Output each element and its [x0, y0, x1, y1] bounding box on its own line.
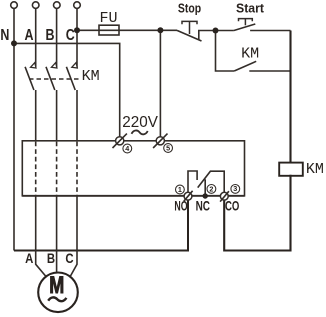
svg-text:FU: FU: [99, 10, 117, 27]
svg-text:C: C: [66, 27, 75, 44]
svg-text:B: B: [46, 27, 55, 44]
svg-text:1: 1: [178, 185, 182, 194]
svg-text:C: C: [65, 251, 73, 266]
svg-text:KM: KM: [241, 45, 259, 62]
svg-text:N: N: [0, 27, 9, 44]
svg-text:Stop: Stop: [178, 0, 201, 15]
svg-text:A: A: [25, 251, 33, 266]
svg-text:Start: Start: [236, 0, 265, 15]
svg-text:NO: NO: [174, 197, 187, 213]
svg-text:4: 4: [125, 144, 129, 153]
svg-text:5: 5: [166, 144, 170, 153]
svg-text:NC: NC: [196, 197, 210, 213]
svg-text:2: 2: [209, 185, 213, 194]
svg-text:B: B: [47, 251, 55, 266]
svg-text:CO: CO: [225, 197, 239, 213]
svg-text:220V: 220V: [122, 114, 158, 131]
svg-text:M: M: [49, 272, 64, 299]
svg-text:KM: KM: [82, 68, 100, 85]
svg-text:KM: KM: [306, 161, 324, 178]
svg-text:A: A: [25, 27, 34, 44]
svg-text:3: 3: [233, 184, 237, 193]
